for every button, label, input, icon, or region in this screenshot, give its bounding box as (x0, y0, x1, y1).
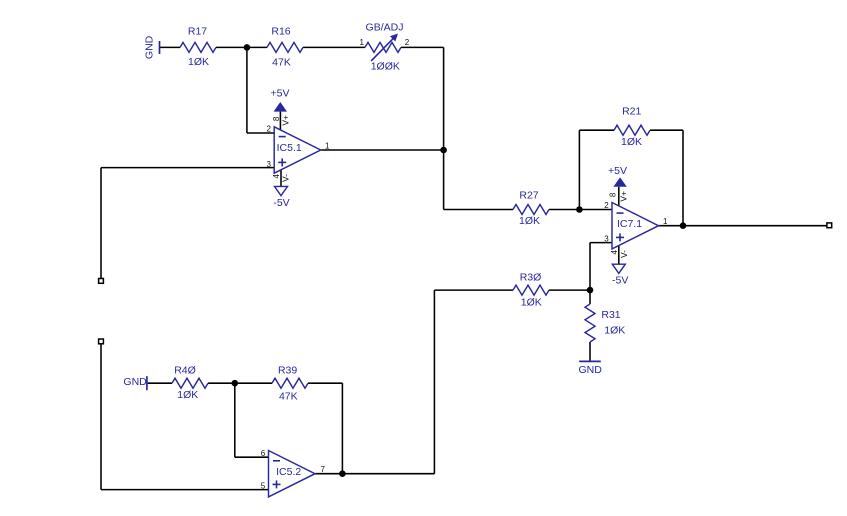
svg-text:1: 1 (325, 141, 330, 150)
svg-text:R31: R31 (601, 309, 620, 321)
svg-text:+5V: +5V (271, 87, 290, 99)
svg-text:-5V: -5V (273, 197, 289, 209)
svg-text:IC7.1: IC7.1 (617, 218, 642, 230)
svg-text:8: 8 (609, 192, 618, 197)
svg-text:7: 7 (321, 465, 326, 474)
svg-text:1ØK: 1ØK (521, 297, 542, 309)
svg-text:47K: 47K (272, 57, 291, 69)
svg-text:V-: V- (281, 174, 291, 182)
svg-text:3: 3 (267, 160, 272, 169)
svg-text:3: 3 (604, 234, 609, 243)
svg-text:1ØK: 1ØK (604, 325, 625, 337)
svg-text:V-: V- (619, 250, 629, 258)
svg-text:1ØK: 1ØK (519, 215, 540, 227)
svg-text:R17: R17 (188, 25, 207, 37)
svg-text:+5V: +5V (608, 165, 627, 177)
svg-text:R4Ø: R4Ø (174, 365, 196, 377)
svg-text:1: 1 (663, 217, 668, 226)
svg-text:4: 4 (610, 250, 619, 255)
svg-text:1: 1 (360, 38, 365, 47)
svg-text:5: 5 (261, 482, 266, 491)
svg-text:V+: V+ (280, 115, 290, 126)
svg-text:6: 6 (261, 449, 266, 458)
svg-text:V+: V+ (619, 191, 629, 202)
svg-text:GND: GND (123, 376, 147, 388)
svg-text:1ØK: 1ØK (177, 389, 198, 401)
svg-text:IC5.2: IC5.2 (276, 466, 301, 478)
svg-text:R39: R39 (278, 364, 297, 376)
svg-text:1ØK: 1ØK (188, 56, 209, 68)
svg-text:R27: R27 (519, 190, 538, 202)
svg-text:2: 2 (405, 38, 410, 47)
svg-text:IC5.1: IC5.1 (277, 142, 302, 154)
svg-text:GND: GND (143, 35, 155, 59)
svg-text:R16: R16 (271, 25, 290, 37)
svg-text:47K: 47K (279, 391, 298, 403)
svg-text:-5V: -5V (612, 275, 628, 287)
svg-text:1ØK: 1ØK (621, 136, 642, 148)
svg-text:R3Ø: R3Ø (520, 272, 542, 284)
svg-text:R21: R21 (622, 105, 641, 117)
svg-text:2: 2 (604, 201, 609, 210)
svg-text:2: 2 (267, 125, 272, 134)
svg-text:GB/ADJ: GB/ADJ (366, 21, 404, 33)
svg-text:GND: GND (579, 364, 603, 376)
svg-text:1ØØK: 1ØØK (371, 60, 400, 72)
